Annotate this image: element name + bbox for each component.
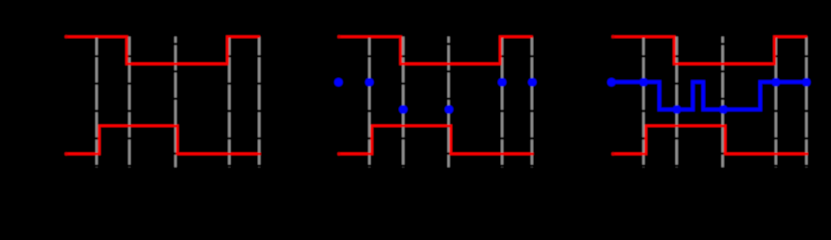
panel 2 bottom trace start cap [337, 152, 340, 155]
panel 3 gridline T5 [805, 37, 807, 168]
panel 2 sample dot S2 [399, 105, 408, 114]
panel 2 sample dot S3 [445, 105, 454, 114]
panel 2 sample dot S5 [528, 78, 537, 87]
panel 2 sample dot S4 [498, 78, 507, 87]
panel 3 sample dot S4 [772, 78, 781, 87]
panel 3 sample dot S1 [639, 78, 648, 87]
panel 2 top red waveform [338, 37, 533, 64]
panel 2 gridline T1 [368, 37, 370, 168]
panel 2 top trace start cap [337, 35, 340, 38]
panel 3 gridline T1 [642, 37, 644, 168]
panel 3 bottom trace start cap [611, 152, 614, 155]
panel 3 blue output waveform [611, 82, 806, 110]
panel 1 gridline T4 [228, 37, 230, 168]
panel 2 sample dot S1 [365, 78, 374, 87]
panel 1 gridline T2 [128, 37, 130, 168]
panel 3 sample dot S5 [802, 78, 811, 87]
panel 2 gridline T5 [531, 37, 533, 168]
panel 1 bottom trace start cap [65, 152, 68, 155]
panel 3 sample dot S0 [607, 78, 616, 87]
panel 3 sample dot S3 [719, 105, 728, 114]
panel 1 top trace start cap [65, 35, 68, 38]
panel 3 gridline T4 [775, 37, 777, 168]
panel 2 bottom red waveform [338, 126, 533, 154]
panel 3 top red waveform [612, 37, 807, 64]
panel 1 top red waveform [65, 37, 260, 64]
panel 2 gridline T4 [501, 37, 503, 168]
panel 2 sample dot S0 [334, 78, 343, 87]
panel 1 gridline T3 [174, 37, 176, 168]
panel 3 gridline T3 [722, 37, 724, 168]
panel 2 gridline T2 [402, 37, 404, 168]
panel 1 gridline T1 [95, 37, 97, 168]
panel 3 top trace start cap [611, 35, 614, 38]
panel 1 bottom red waveform [65, 126, 260, 154]
panel 3 gridline T2 [676, 37, 678, 168]
panel 1 gridline T5 [258, 37, 260, 168]
panel 3 sample dot S2 [673, 105, 682, 114]
panel 3 bottom red waveform [612, 126, 808, 154]
panel 2 gridline T3 [447, 37, 449, 168]
